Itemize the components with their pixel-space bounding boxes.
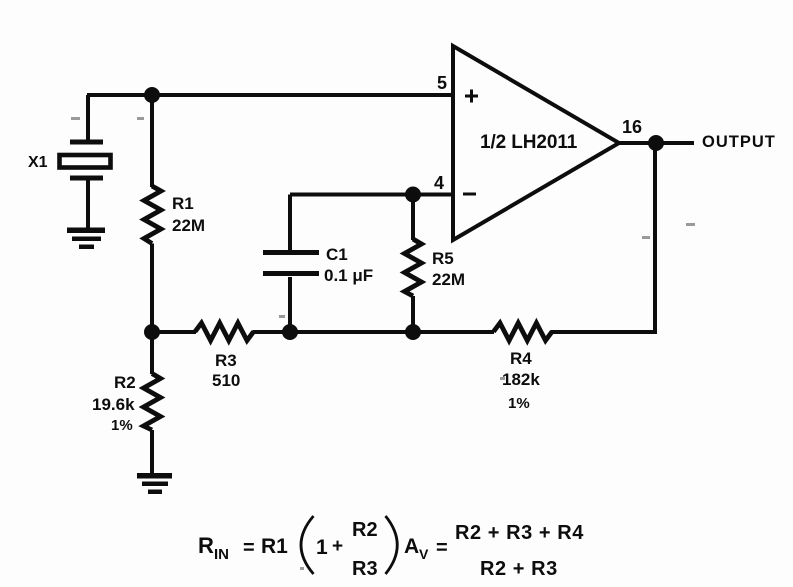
svg-text:R2 + R3: R2 + R3	[480, 558, 558, 580]
svg-text:C1: C1	[326, 245, 348, 264]
wire R2 upper stem	[150, 332, 154, 374]
capacitor C1	[263, 253, 319, 274]
svg-text:X1: X1	[28, 154, 48, 171]
formula R_IN = R1 (1 + R2/R3)	[198, 516, 397, 580]
svg-text:+: +	[332, 536, 343, 557]
scan artifacts (decorative)	[71, 117, 695, 570]
wire crystal lower stem	[86, 180, 90, 228]
wire R1 to bottom node	[150, 244, 154, 333]
wire R5 node to R4	[413, 330, 494, 334]
op-amp - symbol	[463, 193, 476, 196]
svg-text:R2 + R3 + R4: R2 + R3 + R4	[455, 522, 584, 544]
svg-text:182k: 182k	[502, 370, 540, 389]
svg-text:4: 4	[434, 173, 444, 193]
svg-text:1/2 LH2011: 1/2 LH2011	[480, 132, 578, 153]
svg-text:1%: 1%	[111, 417, 133, 434]
svg-text:A: A	[404, 535, 419, 558]
resistor R5	[405, 239, 422, 296]
wire R5 upper stem	[411, 195, 415, 241]
svg-text:R1: R1	[261, 535, 288, 558]
node junction dot top (X1/R1)	[144, 87, 160, 103]
wire R2 to ground	[150, 430, 154, 473]
op-amp + symbol	[465, 90, 478, 103]
wire bottom rail left (node to R3)	[152, 330, 196, 334]
big right parenthesis	[386, 516, 398, 574]
ground under R2	[137, 473, 172, 494]
node junction dot bottom-left (R1/R2/R3)	[144, 324, 160, 340]
svg-text:510: 510	[212, 371, 240, 390]
svg-text:22M: 22M	[172, 216, 205, 235]
node junction dot R5 bottom	[405, 324, 421, 340]
wire R4 to right corner and up to output	[551, 143, 656, 332]
wire feedback top to -input pin 4	[290, 193, 453, 197]
wire R5 lower stem	[411, 296, 415, 332]
resistor R3	[195, 323, 254, 341]
crystal X1	[70, 140, 103, 181]
svg-text:R4: R4	[510, 349, 532, 368]
node junction dot C1 bottom	[282, 324, 298, 340]
wire R3 to C1 node	[253, 330, 291, 334]
wire top from X1 to op-amp +input pin 5	[87, 93, 453, 97]
op-amp U1 1/2 LH2011	[453, 46, 619, 240]
node junction dot R5 top / pin 4	[405, 187, 421, 203]
svg-text:R1: R1	[172, 194, 194, 213]
svg-text:R2: R2	[114, 373, 136, 392]
wire C1 node to R5 node	[290, 330, 413, 334]
svg-text:19.6k: 19.6k	[92, 395, 135, 414]
svg-text:R2: R2	[352, 519, 378, 541]
svg-text:IN: IN	[214, 546, 229, 563]
svg-text:0.1 μF: 0.1 μF	[324, 266, 373, 285]
node junction dot output	[648, 135, 664, 151]
svg-text:R3: R3	[352, 558, 378, 580]
wire R1 branch vertical upper	[150, 95, 154, 187]
svg-text:5: 5	[437, 73, 447, 93]
svg-text:16: 16	[622, 117, 642, 137]
resistor R1	[144, 186, 161, 244]
svg-text:=: =	[436, 537, 448, 559]
svg-text:R5: R5	[432, 249, 454, 268]
svg-text:1: 1	[316, 536, 328, 559]
svg-text:V: V	[419, 546, 429, 562]
ground under X1	[67, 228, 105, 250]
svg-text:22M: 22M	[432, 270, 465, 289]
resistor R2	[144, 374, 161, 431]
wire C1 lower stem	[288, 277, 292, 332]
svg-text:OUTPUT: OUTPUT	[702, 133, 776, 151]
big left parenthesis	[301, 516, 314, 574]
svg-text:R: R	[198, 533, 214, 558]
svg-text:R3: R3	[215, 351, 237, 370]
resistor R4	[494, 323, 553, 341]
wire output pin 16	[619, 141, 694, 145]
svg-text:=: =	[243, 537, 255, 559]
svg-text:1%: 1%	[508, 395, 530, 412]
formula Av = (R2+R3+R4)/(R2+R3)	[404, 522, 584, 580]
wire C1 upper stem	[288, 195, 292, 251]
wire X1 stub down	[86, 95, 90, 140]
